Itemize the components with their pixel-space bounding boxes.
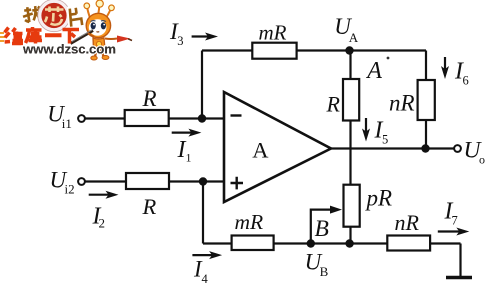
svg-text:B: B bbox=[315, 216, 329, 242]
svg-text:A: A bbox=[252, 138, 269, 163]
svg-text:6: 6 bbox=[463, 74, 469, 88]
svg-text:nR: nR bbox=[389, 91, 415, 116]
svg-text:o: o bbox=[479, 153, 485, 167]
svg-text:i1: i1 bbox=[62, 116, 72, 131]
svg-text:nR: nR bbox=[395, 210, 420, 235]
svg-text:3: 3 bbox=[177, 34, 183, 48]
svg-text:B: B bbox=[320, 264, 329, 279]
svg-text:A: A bbox=[349, 30, 359, 45]
svg-text:4: 4 bbox=[202, 272, 209, 286]
svg-text:pR: pR bbox=[365, 186, 393, 211]
svg-text:mR: mR bbox=[259, 20, 287, 44]
svg-text:5: 5 bbox=[382, 133, 388, 147]
svg-text:1: 1 bbox=[186, 151, 192, 165]
svg-text:mR: mR bbox=[235, 210, 264, 234]
svg-text:i2: i2 bbox=[65, 182, 75, 197]
svg-text:2: 2 bbox=[99, 216, 106, 231]
svg-text:R: R bbox=[326, 92, 341, 117]
svg-text:R: R bbox=[142, 194, 157, 219]
svg-text:A: A bbox=[365, 58, 382, 84]
svg-text:R: R bbox=[142, 86, 157, 111]
svg-text:www.dzsc.com: www.dzsc.com bbox=[22, 42, 116, 57]
svg-text:7: 7 bbox=[452, 214, 458, 228]
